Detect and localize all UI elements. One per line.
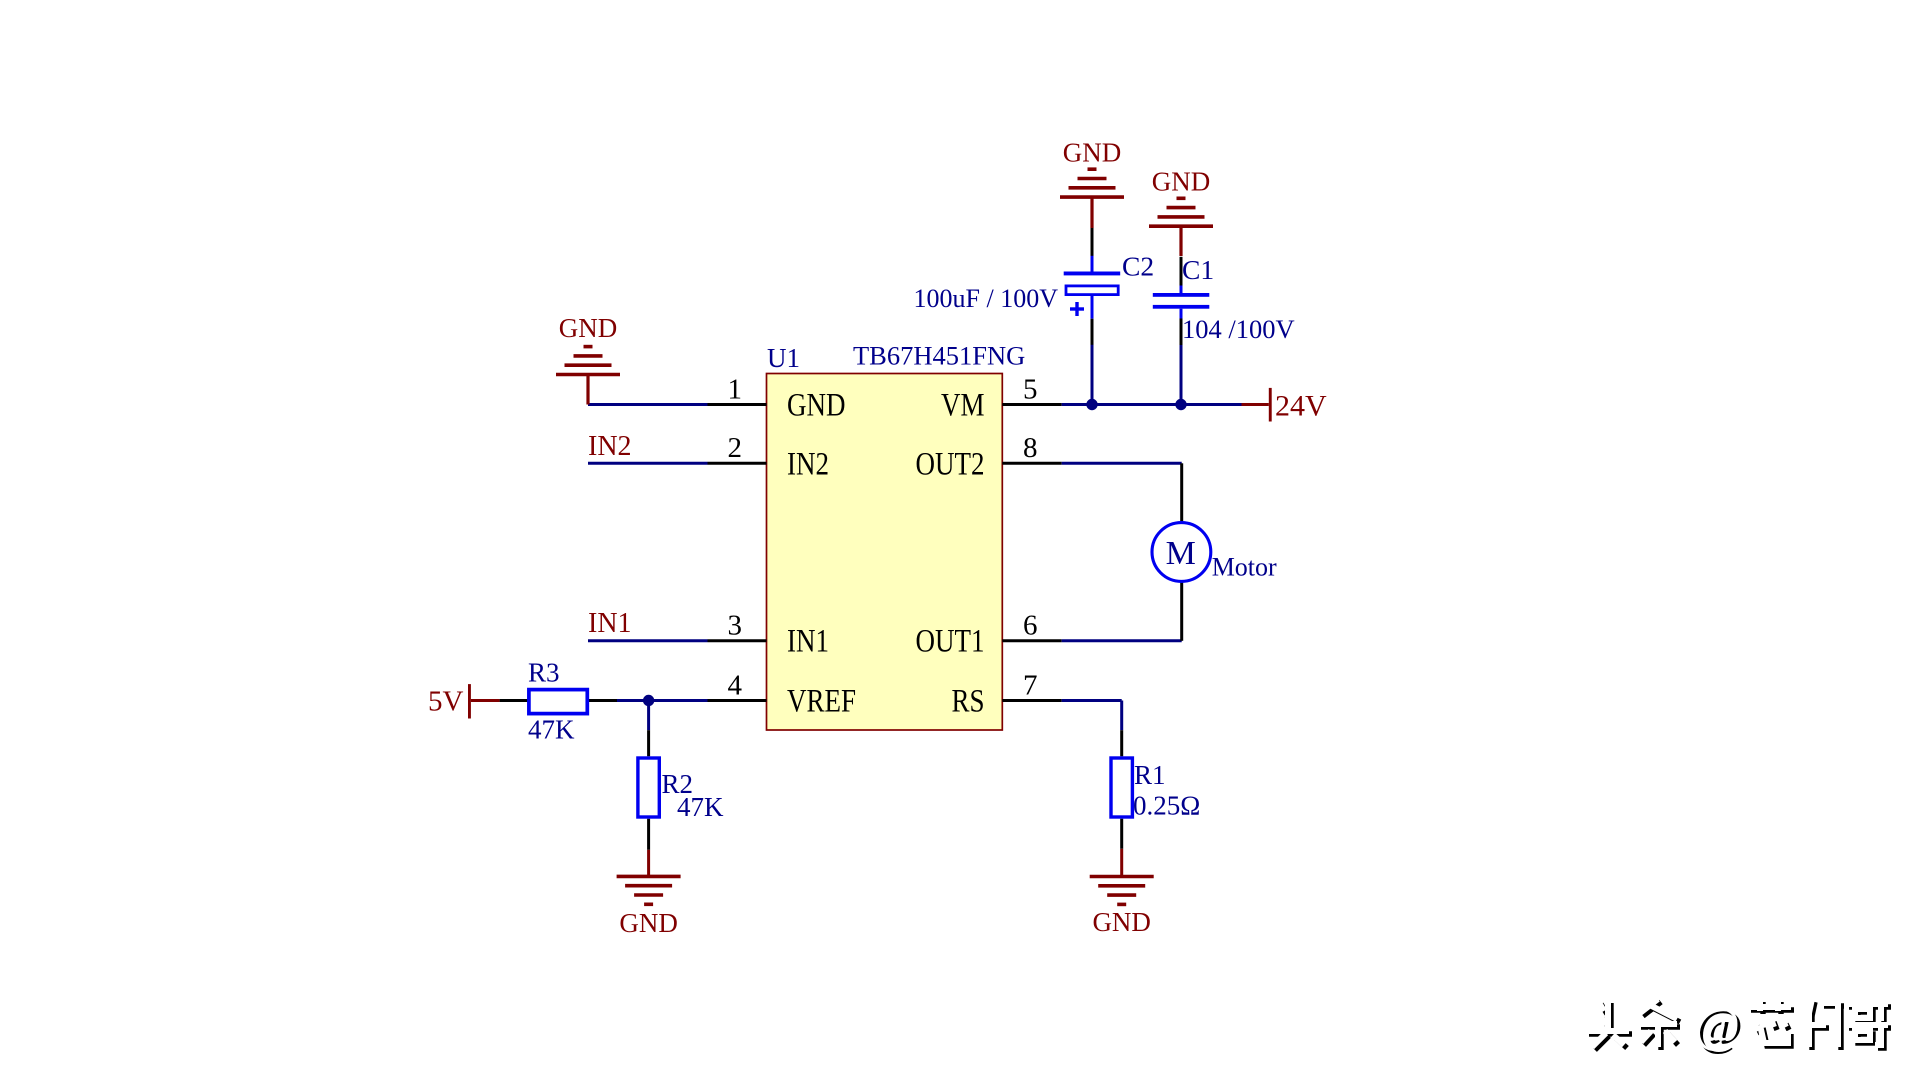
svg-text:R1: R1 [1134,760,1166,790]
svg-text:RS: RS [951,683,984,719]
svg-text:M: M [1166,535,1196,572]
svg-text:C2: C2 [1122,251,1154,282]
svg-text:5: 5 [1023,374,1038,406]
svg-text:C1: C1 [1182,254,1214,285]
svg-text:IN2: IN2 [588,431,632,462]
svg-text:2: 2 [728,432,743,464]
svg-text:R3: R3 [528,658,560,688]
svg-text:U1: U1 [767,343,800,373]
svg-text:OUT1: OUT1 [916,623,985,659]
svg-text:GND: GND [1092,907,1151,937]
svg-text:47K: 47K [528,715,575,745]
svg-text:6: 6 [1023,610,1038,642]
svg-text:3: 3 [728,610,743,642]
svg-text:IN1: IN1 [588,608,632,639]
svg-text:IN1: IN1 [787,623,829,659]
svg-text:GND: GND [1152,167,1211,197]
svg-text:TB67H451FNG: TB67H451FNG [853,341,1025,371]
svg-text:100uF / 100V: 100uF / 100V [914,284,1059,313]
svg-text:VREF: VREF [787,683,856,719]
svg-text:47K: 47K [677,792,724,822]
svg-text:5V: 5V [428,686,464,718]
svg-text:OUT2: OUT2 [916,446,985,482]
svg-text:VM: VM [941,387,984,423]
svg-text:0.25Ω: 0.25Ω [1133,791,1200,821]
svg-text:IN2: IN2 [787,446,829,482]
svg-text:1: 1 [728,374,743,406]
svg-text:GND: GND [559,313,618,343]
svg-text:4: 4 [728,670,743,702]
svg-text:GND: GND [619,908,678,938]
svg-text:@: @ [1694,996,1740,1052]
svg-text:24V: 24V [1275,390,1327,423]
svg-text:8: 8 [1023,432,1038,464]
svg-text:104 /100V: 104 /100V [1182,314,1295,344]
svg-text:Motor: Motor [1212,553,1277,582]
svg-text:GND: GND [787,387,845,423]
svg-text:GND: GND [1063,138,1122,168]
svg-text:7: 7 [1023,670,1038,702]
